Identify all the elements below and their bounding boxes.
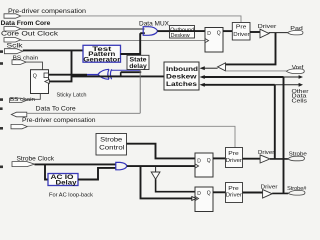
wire inbound data to core (horizontal): [72, 75, 165, 77]
svg-text:Strobe: Strobe: [100, 138, 123, 144]
arrowhead other data cells bottom: [299, 83, 303, 87]
wire driver output to pad: [269, 32, 288, 34]
flip-flop strobe flop: [195, 153, 213, 177]
wire BS chain top to sticky latch: [26, 62, 42, 70]
tick mark left edge strobe clock: [0, 166, 3, 169]
node flag strobe# (points left): [288, 191, 305, 196]
wire data flop to pre-driver: [223, 30, 232, 32]
pin strobe# flop clock notch: [195, 196, 199, 200]
wire strobe# pre-driver to driver: [243, 192, 264, 194]
buffer data driver triangle: [260, 29, 269, 38]
wire strobe vertical net: [274, 85, 276, 159]
node flag data from core: [4, 27, 21, 31]
buffer clock inverter (down triangle): [151, 172, 160, 179]
svg-text:Core Out Clock: Core Out Clock: [1, 31, 59, 38]
wire strobe# driver to strobe# flag: [272, 192, 288, 194]
svg-text:delay: delay: [129, 64, 147, 70]
arrowhead strobe into latches: [200, 83, 205, 87]
svg-text:Deskew: Deskew: [166, 74, 197, 81]
svg-text:Sticky Latch: Sticky Latch: [57, 93, 87, 99]
svg-text:Inbound: Inbound: [166, 66, 198, 73]
wire data line through outbound deskew to flop: [170, 30, 206, 32]
box strobe pre-driver: [226, 148, 243, 168]
wire inverter output to strobe# flop D: [156, 179, 195, 192]
wire strobe control to strobe flop D: [127, 144, 196, 159]
wire strobe clock to loopback mux: [35, 163, 116, 165]
wire strobe into inbound latches: [205, 84, 275, 86]
svg-text:Generator: Generator: [83, 56, 121, 63]
wire BS chain bottom to sticky latch: [26, 94, 40, 100]
wire strobe to other data cells: [275, 84, 299, 86]
gate XOR loopback comparator U1: [98, 69, 112, 79]
node flag core out clock: [4, 38, 21, 42]
svg-text:Driver: Driver: [233, 32, 249, 38]
wire receiver output to inbound latches: [205, 67, 218, 69]
wire strobe flop to pre-driver: [213, 157, 226, 159]
wire pre-driver to driver: [250, 31, 261, 33]
node flag strobe (points left): [288, 156, 305, 161]
box data pre-driver: [232, 23, 250, 41]
wire pre-driver compensation to data pre-driver: [21, 16, 241, 23]
wire TPG output up to data mux and down to state delay: [139, 33, 141, 55]
gate strobe clock loopback mux (blue): [116, 162, 127, 169]
node flag pad (points left): [288, 31, 304, 35]
node flag BS chain top: [12, 60, 26, 65]
wire clock branch to inverter: [155, 166, 157, 172]
svg-text:Pre: Pre: [228, 151, 239, 157]
svg-text:Data From Core: Data From Core: [1, 20, 51, 27]
arrowhead strobe# into latches: [200, 75, 205, 79]
svg-text:Pre: Pre: [236, 24, 247, 30]
svg-text:Cells: Cells: [292, 98, 308, 104]
box strobe control: [96, 134, 127, 156]
wire clock to strobe flops: [127, 165, 195, 167]
svg-text:Deskew: Deskew: [171, 33, 191, 39]
tick mark left edge sclk: [0, 50, 3, 53]
wire strobe# into inbound latches: [205, 76, 284, 78]
wire test pattern generator output: [121, 53, 141, 55]
wire pre-driver compensation to strobe pre-driver: [27, 126, 235, 147]
wire strobe pre-driver to driver: [243, 158, 262, 160]
svg-text:D: D: [197, 158, 201, 164]
node flag sclk: [4, 49, 22, 54]
latch sticky latch: [31, 70, 49, 94]
svg-text:Driver: Driver: [226, 193, 242, 199]
svg-text:Q: Q: [207, 158, 211, 164]
tick mark left edge pre-driver compensation bottom: [0, 127, 3, 130]
tick mark left edge bs chain bottom: [0, 98, 3, 101]
buffer strobe# driver triangle: [263, 190, 273, 198]
wire clock branch down to strobe# flop clock: [141, 166, 193, 198]
svg-text:D: D: [207, 31, 211, 37]
wire vref to receiver: [226, 70, 287, 72]
wire data to core: [27, 112, 140, 114]
wire sclk down to sticky latch: [49, 50, 71, 81]
svg-text:Q: Q: [207, 191, 211, 197]
node flag pre-driver compensation top: [4, 14, 21, 18]
wire pad net down to receiver: [226, 33, 276, 65]
node flag data to core (points left): [11, 112, 26, 117]
node flag strobe clock: [12, 162, 35, 167]
pin strobe flop clock notch: [195, 164, 199, 168]
wire data from core to data mux: [21, 28, 145, 30]
box AC IO delay: [48, 174, 78, 186]
buffer strobe driver triangle: [260, 155, 270, 163]
svg-text:Control: Control: [99, 145, 124, 151]
wire strobe# vertical net: [283, 77, 285, 193]
wire state delay output down to data-to-core tap: [139, 70, 141, 114]
wire strobe# flop to pre-driver: [213, 191, 226, 193]
wire expected data from state delay: [121, 71, 142, 73]
svg-text:D: D: [197, 191, 201, 197]
wire core out clock to output flop clock: [21, 40, 205, 42]
svg-text:Driver: Driver: [226, 158, 242, 164]
pin data flop clock notch: [205, 39, 209, 43]
wire sclk to test pattern generator: [23, 49, 83, 51]
pin sticky latch clock arrow: [45, 79, 50, 83]
gate data mux (blue): [143, 27, 158, 36]
wire strobe# to other data cells: [284, 76, 300, 78]
box state delay: [127, 55, 149, 69]
tick mark left edge bs chain top: [0, 62, 3, 65]
svg-text:Data To Core: Data To Core: [36, 106, 77, 113]
svg-text:Pre: Pre: [228, 186, 239, 192]
node flag vref (points left): [286, 69, 304, 74]
tick mark left edge data to core: [0, 107, 3, 110]
wire data mux output to outbound deskew: [157, 30, 170, 32]
box strobe# pre-driver: [226, 183, 243, 203]
wire strobe driver to strobe flag: [270, 158, 288, 160]
arrowhead receiver output into latches: [200, 66, 205, 70]
svg-text:Pre-driver compensation: Pre-driver compensation: [22, 118, 96, 124]
svg-text:Pre-driver compensation: Pre-driver compensation: [8, 9, 86, 15]
svg-text:Delay: Delay: [56, 181, 78, 187]
arrowhead other data cells top: [299, 75, 303, 79]
box outbound deskew: [170, 26, 195, 39]
wire strobe clock tap to AC IO delay: [45, 164, 48, 179]
wire stub from expected-data line down to data line: [120, 72, 122, 76]
flip-flop strobe# flop: [195, 187, 213, 212]
flip-flop output data flop: [205, 28, 223, 53]
svg-text:Q: Q: [217, 31, 221, 37]
wire XOR lower input from inbound data: [111, 75, 122, 77]
svg-text:Q: Q: [33, 74, 37, 80]
box inbound deskew latches: [164, 62, 199, 90]
box test pattern generator: [83, 45, 121, 62]
arrowhead clock into strobe# flop: [192, 197, 196, 201]
node flag BS chain bottom: [10, 98, 27, 102]
svg-text:Latches: Latches: [166, 81, 198, 88]
pin sticky latch D square: [44, 73, 49, 78]
wire XOR upper input from state delay: [111, 69, 140, 71]
buffer receiver triangle: [218, 63, 226, 71]
node flag pre-driver compensation bottom: [11, 124, 27, 128]
svg-text:For AC loop-back: For AC loop-back: [49, 192, 93, 198]
wire sticky latch D from XOR comparator: [49, 74, 88, 76]
svg-text:State: State: [130, 58, 148, 64]
wire AC IO delay output to loopback mux: [78, 168, 116, 180]
